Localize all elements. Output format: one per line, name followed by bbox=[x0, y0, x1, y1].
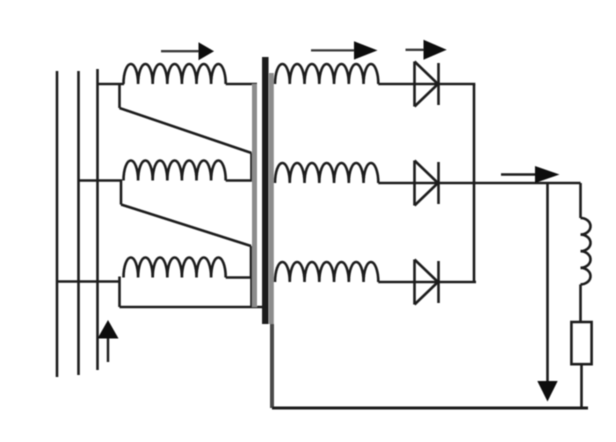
wire supply line 1 bbox=[56, 71, 59, 377]
wire feed to primary 3 bbox=[57, 280, 121, 283]
wire S3 to D3 bbox=[378, 281, 476, 284]
wire S2 to D2 bbox=[378, 182, 580, 185]
diode D1 bbox=[415, 62, 439, 107]
primary winding W2 bbox=[124, 161, 226, 181]
arrow input power (up) bbox=[98, 320, 119, 362]
secondary winding S1 bbox=[275, 64, 378, 84]
wire S1 to D1 bbox=[378, 83, 475, 86]
wire W1 right lead bbox=[226, 83, 257, 86]
resistor R (load) bbox=[571, 322, 591, 364]
wire riser 2 bbox=[250, 246, 253, 278]
transformer core bbox=[262, 57, 269, 324]
wire W3 left drop bbox=[118, 277, 121, 308]
wire W2 right lead bbox=[226, 179, 253, 182]
wire primary right bus (gray) bbox=[252, 84, 257, 307]
primary winding W3 bbox=[124, 258, 226, 278]
secondary winding S2 bbox=[275, 163, 378, 183]
wire bottom rail bbox=[272, 407, 588, 410]
wire cathode bus bbox=[473, 84, 476, 283]
wire load branch top bbox=[579, 183, 582, 218]
wire primary bottom return bbox=[120, 306, 265, 309]
wire feed to primary 2 bbox=[79, 179, 123, 182]
arrow over D1 bbox=[406, 40, 447, 60]
primary winding W1 bbox=[124, 64, 226, 84]
wire zigzag diagonal 2 bbox=[121, 205, 251, 247]
diode D2 bbox=[415, 161, 439, 206]
arrow output current (right) bbox=[501, 166, 560, 183]
wire supply line 2 bbox=[77, 71, 80, 375]
wire riser 1 bbox=[250, 153, 253, 181]
arrow over S1 bbox=[311, 41, 378, 59]
wire zigzag diagonal 1 bbox=[120, 108, 252, 153]
wire choke to resistor bbox=[579, 284, 582, 322]
wire resistor to rail bbox=[580, 364, 583, 408]
arrow over W1 bbox=[161, 42, 214, 60]
wire riser 3 bbox=[250, 278, 253, 308]
wire W1 left drop bbox=[118, 83, 121, 108]
inductor L (choke) bbox=[581, 218, 591, 284]
wire W3 right lead bbox=[226, 276, 253, 279]
arrow load current (down) bbox=[537, 184, 557, 402]
wire feed to primary 1 bbox=[98, 83, 125, 86]
wire W2 left drop bbox=[120, 180, 123, 205]
diode D3 bbox=[415, 260, 439, 305]
wire supply line 3 bbox=[96, 69, 99, 370]
wire star point to bottom rail bbox=[270, 324, 274, 408]
node secondary star bus (gray) bbox=[269, 73, 274, 324]
secondary winding S3 bbox=[275, 262, 378, 282]
